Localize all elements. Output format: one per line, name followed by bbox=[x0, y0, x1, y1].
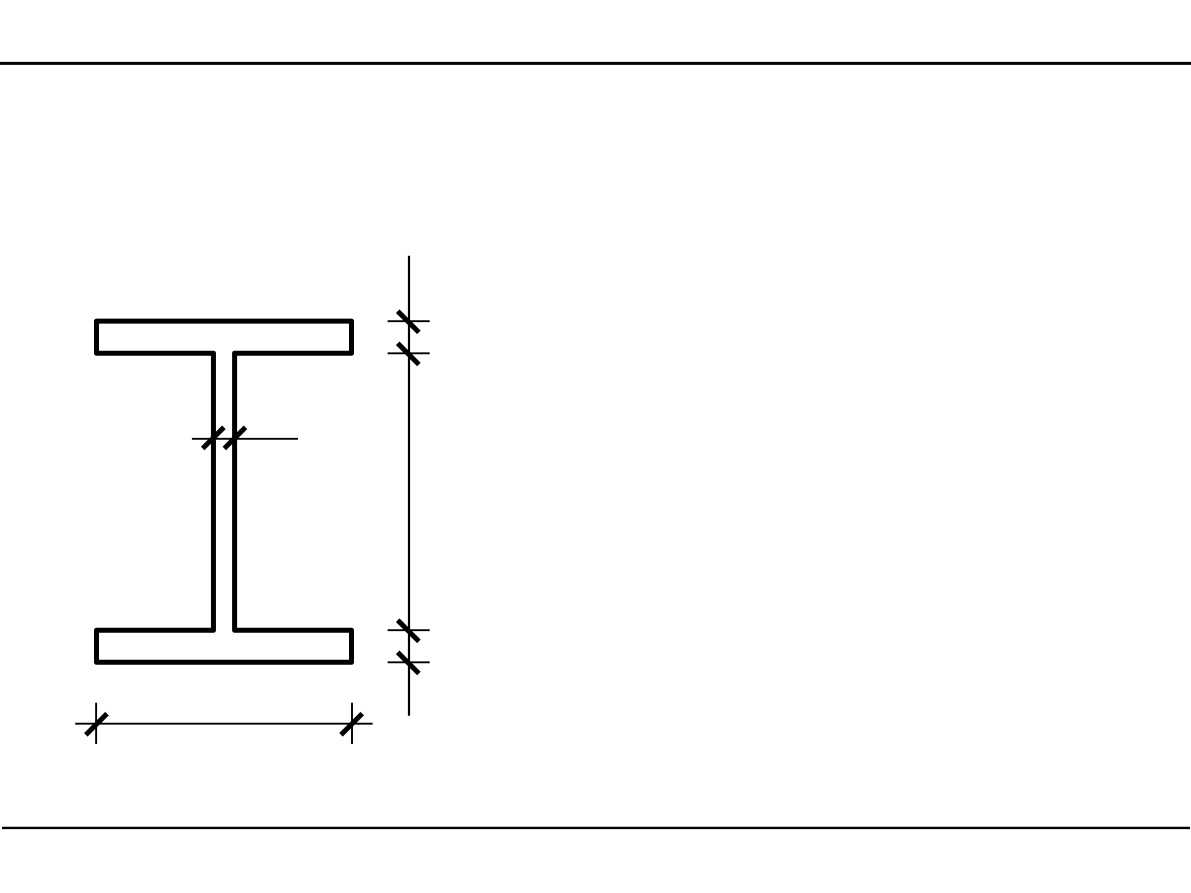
web thickness leader line bbox=[192, 438, 298, 440]
top border rule bbox=[0, 62, 1191, 65]
web tick slash right bbox=[224, 427, 245, 448]
bottom tick cross line right bbox=[351, 703, 353, 744]
bottom border rule bbox=[2, 827, 1190, 829]
tick slash (bottom flange bottom) bbox=[398, 652, 419, 673]
web tick slash left bbox=[203, 427, 224, 448]
bottom tick slash right bbox=[341, 714, 362, 735]
bottom tick cross line left bbox=[95, 703, 97, 744]
tick cross line (bottom flange top) bbox=[388, 629, 430, 631]
tick cross line (top flange bottom) bbox=[388, 352, 430, 354]
bottom tick slash left bbox=[86, 714, 107, 735]
bottom dimension line bbox=[75, 723, 372, 725]
tick slash (top flange bottom) bbox=[398, 343, 419, 364]
tick slash (bottom flange top) bbox=[398, 620, 419, 641]
vertical dimension line bbox=[408, 256, 410, 716]
tick cross line (top flange top) bbox=[388, 320, 430, 322]
tick slash (top flange top) bbox=[398, 311, 419, 332]
tick cross line (bottom flange bottom) bbox=[388, 661, 430, 663]
I-beam section outline bbox=[97, 321, 352, 662]
